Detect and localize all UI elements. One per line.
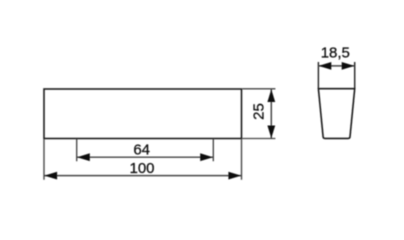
svg-text:18,5: 18,5	[321, 45, 350, 62]
svg-text:25: 25	[251, 103, 268, 120]
svg-text:64: 64	[133, 142, 150, 159]
svg-text:100: 100	[129, 160, 154, 177]
